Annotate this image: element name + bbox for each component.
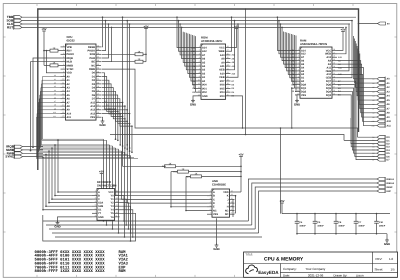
svg-text:9: 9 — [231, 208, 232, 211]
svg-text:D7: D7 — [372, 158, 374, 161]
capacitor C7 100nF — [354, 213, 366, 235]
svg-text:GND: GND — [99, 123, 105, 127]
wire ROM bus 7 — [188, 33, 196, 73]
ground (CPU) — [99, 117, 105, 127]
svg-text:1: 1 — [95, 190, 96, 193]
svg-text:2: 2 — [199, 49, 200, 52]
wire A1 fan — [42, 78, 107, 141]
svg-text:31: 31 — [97, 78, 99, 81]
svg-text:REV:: REV: — [376, 257, 383, 261]
IC U4 DECODER SN74HCT138N — [92, 180, 120, 220]
svg-text:SOB: SOB — [90, 53, 96, 56]
connector 5V — [378, 22, 391, 25]
svg-text:27: 27 — [97, 93, 99, 96]
wire A2 fan — [41, 82, 109, 145]
svg-text:6: 6 — [298, 65, 299, 68]
capacitor C5 100nF — [313, 213, 325, 235]
connector P5 control — [377, 177, 395, 193]
svg-text:VSS: VSS — [301, 94, 306, 97]
svg-text:PHI2O: PHI2O — [87, 50, 95, 53]
wire RAM DQ4 — [337, 91, 377, 150]
wire 5V pin — [358, 23, 378, 25]
wire dec in 3 — [48, 150, 92, 203]
svg-text:1: 1 — [199, 45, 200, 48]
svg-text:B: B — [98, 194, 100, 197]
wire RAM bus 12 — [295, 36, 296, 92]
svg-text:13: 13 — [231, 193, 233, 196]
svg-text:28: 28 — [333, 48, 335, 51]
svg-text:16: 16 — [333, 89, 335, 92]
wire A1x 3 — [102, 111, 131, 159]
svg-text:C: C — [213, 198, 215, 201]
svg-text:30: 30 — [97, 81, 99, 84]
ground (RAM) — [294, 95, 300, 107]
wire A0 fan — [43, 74, 104, 139]
svg-text:19: 19 — [333, 79, 335, 82]
wire RWB trunk — [102, 69, 358, 137]
svg-text:A2: A2 — [54, 82, 56, 85]
resistor R1 1K — [43, 47, 60, 52]
svg-text:VCC: VCC — [108, 191, 113, 194]
svg-text:+5V: +5V — [238, 153, 243, 157]
wire A7 fan — [39, 100, 125, 152]
wire bus drop 1 — [126, 20, 128, 146]
+5V symbol (AND) — [235, 153, 244, 193]
svg-text:ROM: ROM — [119, 269, 127, 274]
svg-text:GND: GND — [202, 95, 208, 98]
svg-text:24: 24 — [333, 62, 335, 65]
svg-text:I/O7: I/O7 — [220, 80, 225, 83]
svg-text:NC: NC — [225, 209, 229, 212]
svg-text:16: 16 — [116, 190, 118, 193]
IC U1 CPU 65C02 — [61, 35, 102, 120]
svg-text:+5V: +5V — [279, 199, 284, 203]
wire dec Y5 — [43, 213, 136, 241]
wire AND in feeds — [110, 145, 208, 203]
svg-text:7: 7 — [95, 211, 96, 214]
svg-text:G2B: G2B — [98, 205, 103, 208]
svg-text:WEB: WEB — [219, 50, 225, 53]
svg-text:5: 5 — [63, 59, 64, 62]
svg-text:A14: A14 — [90, 105, 95, 108]
svg-text:A8: A8 — [54, 104, 56, 107]
svg-text:27: 27 — [227, 49, 229, 52]
svg-text:19: 19 — [227, 78, 229, 81]
svg-text:A14: A14 — [202, 46, 207, 49]
wire PHI2 trunk — [110, 135, 344, 141]
wire D2 knot — [102, 80, 121, 146]
svg-text:A10: A10 — [387, 120, 392, 123]
connector P2 — [5, 145, 43, 159]
wire RAM DQ6 — [337, 85, 377, 157]
svg-text:Drawn By:: Drawn By: — [334, 273, 348, 277]
svg-text:14: 14 — [116, 197, 118, 200]
svg-text:A4: A4 — [54, 89, 56, 92]
wire R6 to AND pin5 — [170, 172, 207, 208]
wire RAM DQ7 — [337, 81, 377, 159]
wire RAM bus 9 — [291, 34, 295, 81]
svg-text:22: 22 — [97, 111, 99, 114]
svg-text:24: 24 — [227, 60, 229, 63]
wire ctrl 3 — [259, 191, 377, 233]
wire cap rail top — [282, 213, 390, 215]
svg-text:1: 1 — [210, 190, 211, 193]
wire RAM bus 11 — [293, 35, 296, 88]
wire trunk tap — [245, 8, 247, 135]
svg-text:12: 12 — [198, 86, 200, 89]
wire ROM bus 10 — [193, 35, 197, 85]
capacitor C4 100nF — [295, 213, 307, 235]
svg-text:11: 11 — [116, 207, 118, 210]
wire RAM bus 6 — [287, 33, 295, 71]
svg-text:RWB: RWB — [89, 68, 95, 71]
svg-text:RESB: RESB — [88, 46, 95, 49]
svg-text:OEB: OEB — [219, 69, 225, 72]
svg-text:I/O3: I/O3 — [220, 95, 225, 98]
capacitor C10 100nF — [374, 213, 386, 235]
svg-text:TITLE:: TITLE: — [246, 254, 254, 257]
svg-text:36: 36 — [97, 59, 99, 62]
svg-text:23: 23 — [97, 107, 99, 110]
svg-text:Date:: Date: — [283, 273, 290, 277]
+5V symbol (CPU pullups) — [41, 27, 46, 65]
svg-text:+5V: +5V — [340, 28, 345, 32]
wire D6 knot — [102, 95, 131, 152]
svg-text:C: C — [98, 198, 100, 201]
svg-text:1: 1 — [63, 44, 64, 47]
svg-text:1: 1 — [298, 48, 299, 51]
svg-text:20: 20 — [333, 75, 335, 78]
wire ctrl 2 — [255, 187, 377, 229]
svg-text:CD4081BE: CD4081BE — [212, 183, 226, 187]
svg-text:13: 13 — [62, 89, 64, 92]
svg-text:CEB: CEB — [219, 76, 224, 79]
wire RAM OEB — [337, 23, 350, 71]
svg-text:NC: NC — [91, 64, 95, 67]
svg-text:1K: 1K — [169, 163, 172, 166]
wire dec Y0 — [120, 196, 125, 222]
svg-text:SOB: SOB — [162, 165, 167, 168]
svg-text:15: 15 — [333, 92, 335, 95]
svg-text:8000h-FFFF 1XXX XXXX XXXX XXXX: 8000h-FFFF 1XXX XXXX XXXX XXXX — [35, 269, 106, 274]
svg-text:NMIB: NMIB — [67, 64, 74, 67]
svg-text:6: 6 — [199, 64, 200, 67]
svg-text:BE: BE — [92, 61, 96, 64]
svg-text:11: 11 — [62, 81, 64, 84]
svg-text:8: 8 — [298, 72, 299, 75]
ground (ROM) — [190, 96, 196, 107]
svg-text:18: 18 — [62, 107, 64, 110]
wire RAM bus 8 — [290, 34, 295, 78]
wire AND right K J — [233, 195, 236, 217]
svg-text:VSS: VSS — [213, 213, 218, 216]
wire RAM bus 0 — [277, 16, 295, 50]
svg-text:1K: 1K — [182, 168, 185, 171]
wire A4 fan — [40, 89, 115, 148]
wire bottom bus 3 — [52, 232, 259, 234]
wire bottom bus 2 — [49, 228, 255, 230]
wire dec Y3 — [120, 206, 132, 234]
wire dec in 0 — [57, 140, 92, 193]
wire D0 knot — [102, 73, 117, 140]
svg-text:5: 5 — [210, 204, 211, 207]
wire DQ riser — [291, 87, 293, 129]
svg-text:20: 20 — [62, 115, 64, 118]
svg-text:11: 11 — [231, 201, 233, 204]
svg-text:1.0: 1.0 — [389, 257, 394, 261]
wire A3 fan — [41, 85, 113, 146]
title block — [244, 252, 398, 277]
wire RAM bus 4 — [284, 32, 295, 65]
svg-text:+5V: +5V — [41, 27, 46, 31]
resistor R7 1K — [186, 173, 242, 178]
+5V symbol (decoder) — [99, 170, 104, 189]
svg-text:20: 20 — [227, 75, 229, 78]
svg-text:9: 9 — [199, 75, 200, 78]
svg-text:PHI1O: PHI1O — [67, 53, 75, 56]
svg-text:VSS: VSS — [90, 116, 95, 119]
svg-text:PHI2: PHI2 — [89, 57, 95, 60]
svg-text:I/O4: I/O4 — [220, 91, 225, 94]
svg-text:2: 2 — [63, 48, 64, 51]
svg-text:SYNC: SYNC — [67, 68, 74, 71]
wire ROM bus 9 — [191, 34, 196, 81]
svg-text:A15: A15 — [104, 100, 107, 103]
svg-text:I/O1: I/O1 — [202, 87, 207, 90]
wire A6 fan — [39, 96, 121, 151]
svg-text:A10: A10 — [53, 111, 56, 114]
wire ctrl 0 — [248, 179, 377, 221]
svg-text:18: 18 — [227, 82, 229, 85]
svg-text:1K: 1K — [53, 47, 56, 50]
svg-text:Your Company: Your Company — [306, 267, 326, 271]
svg-text:+5V: +5V — [143, 25, 148, 29]
svg-text:22: 22 — [227, 67, 229, 70]
svg-text:7: 7 — [210, 212, 211, 215]
svg-text:A13: A13 — [220, 54, 225, 57]
svg-text:39: 39 — [97, 48, 99, 51]
wire bus drop 2 — [129, 23, 131, 149]
svg-text:28: 28 — [227, 45, 229, 48]
wire ROM bus 8 — [189, 34, 196, 77]
svg-text:5: 5 — [95, 204, 96, 207]
svg-text:8: 8 — [63, 70, 64, 73]
wire D7 knot — [102, 99, 133, 153]
svg-text:1/5: 1/5 — [391, 267, 396, 271]
wire dec in 1 — [54, 144, 92, 196]
resistor R5 1K — [123, 163, 242, 168]
svg-text:A12: A12 — [110, 111, 113, 114]
svg-text:B: B — [213, 195, 215, 198]
svg-text:10: 10 — [297, 79, 299, 82]
svg-text:1K: 1K — [138, 58, 141, 61]
svg-text:4: 4 — [298, 58, 299, 61]
wire A9 fan — [38, 107, 131, 155]
wire A10 fan — [37, 111, 134, 157]
svg-text:EasyEDA: EasyEDA — [258, 270, 279, 275]
svg-text:37: 37 — [97, 56, 99, 59]
wire top bus L3 — [22, 23, 348, 25]
svg-text:A3: A3 — [54, 85, 56, 88]
ground (decoder) — [54, 217, 92, 229]
svg-text:15: 15 — [62, 96, 64, 99]
svg-text:25: 25 — [97, 100, 99, 103]
wire RAM WEB — [337, 27, 347, 54]
svg-text:GND: GND — [213, 247, 219, 251]
svg-text:A: A — [98, 191, 100, 194]
wire top bus L4 — [22, 26, 344, 28]
wire RAM DQ3 — [337, 95, 377, 147]
svg-text:VCC: VCC — [219, 46, 224, 49]
svg-text:100nF: 100nF — [358, 224, 365, 227]
svg-text:D6: D6 — [372, 155, 374, 158]
net label RDY — [186, 175, 191, 178]
wire IRQB — [32, 58, 60, 148]
svg-text:VPB: VPB — [67, 46, 72, 49]
+5V symbol (RAM) — [337, 28, 346, 51]
svg-text:21: 21 — [333, 72, 335, 75]
svg-text:SN74HCT138N: SN74HCT138N — [97, 183, 116, 187]
svg-text:RSDA2: RSDA2 — [387, 182, 395, 185]
wire CPU ctl 1 — [102, 20, 107, 51]
svg-text:100nF: 100nF — [299, 224, 306, 227]
svg-text:22: 22 — [333, 68, 335, 71]
svg-text:29: 29 — [97, 85, 99, 88]
wire RAM bus 5 — [285, 32, 295, 68]
wire dec in 4 — [45, 154, 92, 207]
svg-text:40: 40 — [97, 44, 99, 47]
svg-text:1K: 1K — [138, 51, 141, 54]
svg-text:13: 13 — [297, 89, 299, 92]
svg-text:A11: A11 — [387, 124, 392, 127]
ground (caps) — [384, 234, 390, 246]
svg-text:16: 16 — [62, 100, 64, 103]
+5V symbol (ROM) — [231, 25, 240, 48]
svg-text:SYNC: SYNC — [5, 155, 14, 159]
svg-text:2: 2 — [95, 193, 96, 196]
svg-text:25: 25 — [227, 56, 229, 59]
svg-text:32: 32 — [97, 74, 99, 77]
wire ROM bus 4 — [183, 32, 196, 63]
svg-text:10: 10 — [116, 211, 118, 214]
svg-text:A1: A1 — [54, 78, 56, 81]
svg-text:34: 34 — [97, 67, 99, 70]
svg-text:11: 11 — [297, 82, 299, 85]
wire A1x 0 — [102, 100, 124, 154]
svg-text:13: 13 — [116, 200, 118, 203]
svg-text:100nF: 100nF — [338, 224, 345, 227]
svg-text:A14: A14 — [106, 104, 109, 107]
svg-text:3: 3 — [298, 55, 299, 58]
svg-text:11: 11 — [198, 82, 200, 85]
svg-text:23: 23 — [333, 65, 335, 68]
wire A5 fan — [40, 93, 119, 150]
svg-text:4: 4 — [95, 200, 96, 203]
svg-text:I/O2: I/O2 — [202, 91, 207, 94]
ground (AND) — [213, 218, 219, 251]
svg-text:A12: A12 — [202, 50, 207, 53]
wire A11 fan — [36, 115, 138, 159]
connector P1 — [6, 15, 22, 29]
svg-text:2: 2 — [298, 51, 299, 54]
svg-text:A10: A10 — [67, 112, 72, 115]
net label PH2 — [173, 171, 177, 174]
connector P3 A0-A11 — [371, 77, 391, 128]
svg-text:AT28C256-15PU: AT28C256-15PU — [201, 39, 222, 43]
svg-text:9: 9 — [298, 75, 299, 78]
svg-text:4: 4 — [199, 56, 200, 59]
wire RAM bus 2 — [280, 23, 295, 57]
svg-text:GND: GND — [294, 103, 300, 107]
svg-text:D5: D5 — [372, 152, 374, 155]
wire cap rail bottom — [297, 233, 387, 235]
wire R7 to AND pin6 — [185, 176, 207, 211]
svg-text:15: 15 — [227, 93, 229, 96]
wire dec Y2 — [120, 203, 130, 230]
svg-text:GND: GND — [98, 216, 104, 219]
svg-text:3: 3 — [63, 52, 64, 55]
svg-text:6: 6 — [210, 208, 211, 211]
svg-text:65C02: 65C02 — [67, 38, 76, 42]
svg-text:A11: A11 — [220, 65, 225, 68]
svg-text:RST: RST — [7, 25, 13, 29]
svg-text:Sheet:: Sheet: — [375, 267, 384, 271]
wire ROM IO3 drop — [231, 96, 244, 129]
svg-text:14: 14 — [62, 93, 64, 96]
resistor R3 1K — [102, 51, 147, 56]
wire VDD pullup — [46, 50, 61, 73]
svg-text:23: 23 — [227, 64, 229, 67]
svg-text:100nF: 100nF — [379, 224, 386, 227]
wire CPU ctl 0 — [102, 16, 104, 47]
svg-text:17: 17 — [62, 104, 64, 107]
svg-text:12: 12 — [231, 197, 233, 200]
wire top bus L2 — [22, 20, 352, 22]
svg-text:9: 9 — [63, 74, 64, 77]
svg-text:GND: GND — [384, 242, 390, 246]
svg-text:I/O0: I/O0 — [202, 84, 207, 87]
svg-text:3: 3 — [210, 197, 211, 200]
svg-text:A13: A13 — [90, 109, 95, 112]
svg-text:VDD: VDD — [223, 191, 228, 194]
svg-text:35: 35 — [97, 63, 99, 66]
svg-text:18: 18 — [333, 82, 335, 85]
wire A1x 2 — [102, 107, 129, 157]
svg-text:10: 10 — [198, 78, 200, 81]
svg-text:Company:: Company: — [283, 267, 297, 271]
svg-text:26: 26 — [97, 96, 99, 99]
wire D0 D1 D2 feeds — [344, 118, 377, 144]
svg-text:3: 3 — [199, 52, 200, 55]
svg-text:K: K — [227, 195, 229, 198]
svg-text:33: 33 — [97, 70, 99, 73]
svg-text:5: 5 — [298, 62, 299, 65]
wire D1 knot — [102, 77, 119, 142]
wire CPU ctl 2 — [102, 23, 110, 58]
net label SOB — [162, 165, 167, 168]
wire RAM bus 1 — [278, 20, 295, 54]
wire RAM bus 10 — [293, 35, 295, 85]
wire ROM CEB — [231, 23, 239, 77]
svg-text:VDD: VDD — [67, 72, 72, 75]
svg-text:10: 10 — [231, 204, 233, 207]
svg-text:5: 5 — [199, 60, 200, 63]
wire dec Y4 — [120, 210, 134, 238]
+5V trunk wire — [38, 9, 359, 170]
wire RAM bus 3 — [281, 27, 295, 61]
svg-text:100nF: 100nF — [317, 224, 324, 227]
capacitor C6 100nF — [334, 213, 346, 235]
